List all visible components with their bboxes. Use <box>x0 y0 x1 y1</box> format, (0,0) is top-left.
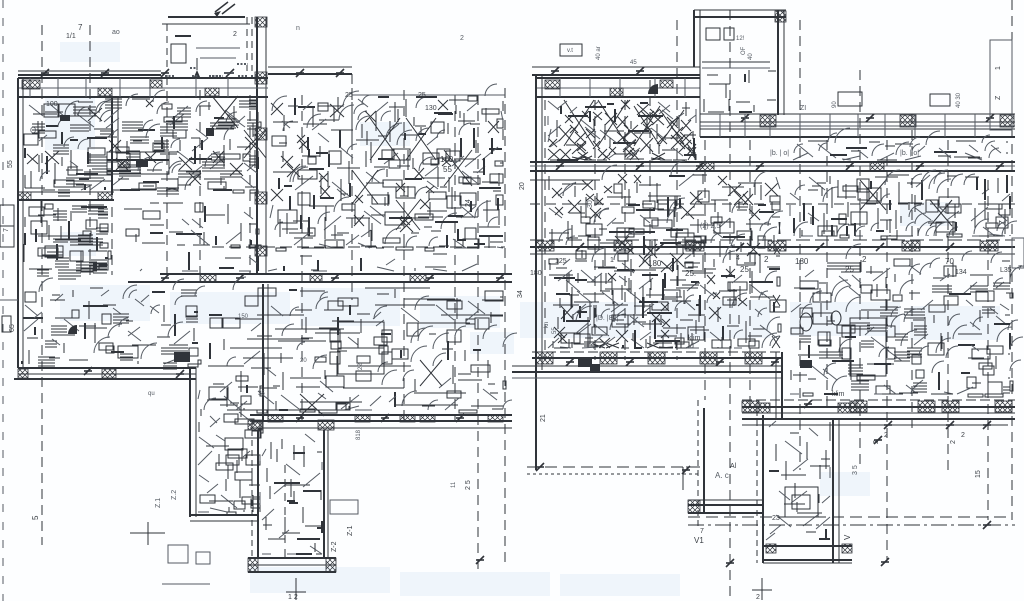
wall hatch <box>995 401 1012 412</box>
dim tick <box>161 274 169 282</box>
svg-text:2: 2 <box>950 440 957 444</box>
svg-text:V: V <box>843 534 852 540</box>
wall separator <box>227 78 229 97</box>
protrusion bottom wall <box>763 545 852 547</box>
svg-text:2: 2 <box>961 432 965 439</box>
lower-left wing bottom <box>190 514 258 516</box>
corridor details <box>140 252 493 271</box>
arrow <box>194 70 200 77</box>
wall hatch <box>488 415 503 422</box>
wall hatch <box>600 352 617 364</box>
table furniture group right plan <box>850 318 886 376</box>
svg-text:Z-2: Z-2 <box>331 541 338 552</box>
tail bottom dim stub <box>295 578 297 600</box>
dim tick <box>996 162 1004 170</box>
interior wall block <box>107 152 169 174</box>
wall hatch <box>98 192 112 200</box>
dim tick <box>381 414 389 422</box>
svg-text:11: 11 <box>451 481 457 488</box>
dim tick <box>884 421 892 429</box>
wall hatch <box>980 241 998 251</box>
brace X <box>244 130 266 158</box>
sub band <box>530 179 600 181</box>
svg-text:180: 180 <box>795 257 809 266</box>
svg-text:OF: OF <box>741 46 747 55</box>
svg-text:21: 21 <box>540 414 547 422</box>
wall hatch <box>1000 115 1014 127</box>
lower-left wing rooms <box>198 384 263 515</box>
dim tick <box>771 358 779 366</box>
dim tick <box>876 243 884 251</box>
upper right rooms <box>790 170 1017 239</box>
left rooms <box>24 201 111 279</box>
dim tick <box>946 421 954 429</box>
svg-text:2: 2 <box>460 35 464 42</box>
section dashed lines bottom right <box>688 516 1012 518</box>
upper-right rooms <box>270 84 503 251</box>
dim tick <box>236 274 244 282</box>
svg-text:34: 34 <box>517 290 524 298</box>
svg-text:Z.1: Z.1 <box>155 498 162 508</box>
dim tick <box>536 463 544 471</box>
small left part of protrusion <box>697 400 699 530</box>
wall hatch <box>700 162 714 171</box>
svg-text:ao: ao <box>112 29 120 36</box>
mid rooms <box>124 203 261 248</box>
bathroom fixtures <box>800 313 812 331</box>
svg-text:Z-1: Z-1 <box>347 525 354 536</box>
wall hatch <box>900 115 916 127</box>
wall hatch <box>757 403 770 413</box>
wall hatch <box>420 415 435 422</box>
wall hatch <box>686 241 704 251</box>
svg-text:20: 20 <box>519 182 526 190</box>
corridor wall <box>160 273 512 275</box>
brace X <box>300 394 324 416</box>
dim tick <box>741 114 749 122</box>
svg-text:Al: Al <box>730 463 737 470</box>
dim tick <box>874 436 882 444</box>
wall hatch <box>355 415 370 422</box>
grid axis <box>41 25 43 545</box>
strip rooms below top band <box>793 128 1008 160</box>
small rooms <box>548 258 700 348</box>
grid axis <box>111 95 113 275</box>
dim tick <box>626 358 634 366</box>
dim tick <box>336 69 344 77</box>
wall down to lower-left wing <box>189 368 191 517</box>
svg-text:1: 1 <box>995 66 1002 70</box>
brace X <box>352 170 378 204</box>
wall hatch <box>610 88 623 96</box>
dim tick <box>636 67 644 75</box>
brace X <box>930 200 952 226</box>
wall hatch <box>200 274 216 282</box>
svg-text:55: 55 <box>443 165 452 174</box>
wall hatch <box>842 544 852 553</box>
wall hatch <box>850 401 867 412</box>
svg-text:100: 100 <box>46 101 58 108</box>
window symbol <box>171 44 186 63</box>
grid axis <box>403 90 405 420</box>
right plan left wall <box>535 75 537 470</box>
wall hatch <box>102 369 116 378</box>
svg-text:A. c: A. c <box>715 471 729 480</box>
dim tick <box>916 162 924 170</box>
protrusion interior <box>704 70 776 112</box>
dim tick <box>946 243 954 251</box>
black door blob <box>68 325 77 334</box>
svg-text:ZI: ZI <box>800 105 806 112</box>
svg-text:134: 134 <box>955 269 967 276</box>
grid axis <box>987 180 989 520</box>
grid axis <box>89 25 91 275</box>
wall edge dashed <box>351 74 353 150</box>
wall hatch <box>255 72 267 84</box>
wall hatch <box>118 160 130 168</box>
dim tick <box>656 243 664 251</box>
dim texts <box>165 64 256 76</box>
wall hatch <box>150 80 162 88</box>
grid axis <box>624 100 626 360</box>
svg-text:7: 7 <box>700 528 704 535</box>
wall separator <box>195 78 197 97</box>
dim tick <box>576 243 584 251</box>
svg-text:qu: qu <box>148 391 155 397</box>
wall hatch <box>18 192 31 200</box>
interior wall <box>111 97 113 195</box>
wall hatch <box>18 369 28 378</box>
svg-text:90: 90 <box>832 101 838 108</box>
grid axis <box>454 95 456 420</box>
grid axis <box>826 140 828 410</box>
brace X <box>660 110 684 144</box>
bottom wall band right <box>250 414 512 416</box>
svg-text:2: 2 <box>873 440 880 444</box>
wall hatch <box>326 558 336 572</box>
wall hatch <box>745 352 762 364</box>
grid axis <box>799 20 801 470</box>
dim tick <box>176 370 184 378</box>
wall separator <box>57 78 59 97</box>
wall hatch <box>22 80 40 89</box>
wall hatch <box>775 11 786 22</box>
top protrusion <box>693 10 695 67</box>
wall separator <box>29 78 31 97</box>
dim tick <box>476 556 484 564</box>
dim tick <box>226 69 234 77</box>
lower right rooms <box>790 244 1024 397</box>
svg-text:65: 65 <box>9 324 16 332</box>
wall separator <box>85 78 87 97</box>
grid axis <box>676 20 678 360</box>
shaft box <box>785 487 818 517</box>
dim tick <box>556 162 564 170</box>
bottom wall band left <box>18 367 196 369</box>
svg-text:12!: 12! <box>736 36 745 42</box>
wall hatch <box>268 415 283 422</box>
corridor band right <box>742 399 1015 401</box>
svg-text:kn: kn <box>544 322 550 328</box>
grid axis <box>504 88 506 565</box>
svg-text:1: 1 <box>610 257 614 264</box>
black furniture blob <box>578 358 592 367</box>
svg-text:5: 5 <box>31 515 40 520</box>
dim tick <box>161 69 169 77</box>
corridor band left <box>532 351 782 353</box>
svg-text:25: 25 <box>345 92 353 99</box>
tail bottom wall <box>248 557 336 559</box>
table furniture group <box>338 322 384 374</box>
svg-text:Z: Z <box>995 95 1002 100</box>
stair block top wall <box>168 16 245 18</box>
svg-text:2: 2 <box>233 31 237 38</box>
svg-text:23: 23 <box>772 515 780 522</box>
wall hatch <box>660 80 673 88</box>
left edge section blocks <box>0 205 14 247</box>
wall hatch <box>870 162 884 171</box>
wall hatch <box>310 274 322 282</box>
brace X <box>420 360 442 386</box>
top wall band <box>18 77 268 79</box>
grid axis <box>947 140 949 470</box>
grid axis <box>649 80 651 360</box>
wall hatch <box>838 403 857 413</box>
grid axis <box>199 90 201 275</box>
grid axis <box>301 95 303 420</box>
grid axis <box>729 10 731 600</box>
svg-text:30: 30 <box>587 200 594 208</box>
scan watermark patches <box>60 285 150 321</box>
wall hatch <box>255 246 267 256</box>
svg-text:25: 25 <box>418 92 426 99</box>
svg-text:35: 35 <box>258 391 265 397</box>
small dark marks <box>60 115 70 121</box>
north wall of right rooms <box>352 94 505 96</box>
wall hatch <box>918 401 935 412</box>
svg-text:130: 130 <box>425 105 437 112</box>
band separators top band <box>719 114 721 137</box>
wall hatch <box>742 401 759 412</box>
wall hatch <box>760 115 776 127</box>
brace X <box>396 200 420 230</box>
brace X <box>634 106 660 146</box>
svg-text:40 30: 40 30 <box>956 92 962 108</box>
brace X <box>564 100 594 146</box>
dim tick <box>84 367 92 375</box>
stair area rooms <box>548 100 696 160</box>
dim tick <box>636 162 644 170</box>
svg-text:150: 150 <box>238 314 249 320</box>
section marker VI <box>215 2 235 14</box>
grid axis <box>544 100 546 360</box>
svg-text:24: 24 <box>465 199 472 207</box>
wall hatch <box>614 241 632 251</box>
dim tick <box>736 243 744 251</box>
wall separator <box>149 78 151 97</box>
top band right part <box>700 113 1015 115</box>
wall hatch <box>248 420 262 430</box>
lower tail walls <box>251 420 253 558</box>
grid axis <box>886 140 888 560</box>
grid axis <box>911 114 913 430</box>
interior wall band left <box>18 191 114 193</box>
lower-left rooms <box>22 278 205 369</box>
lower-right rooms <box>204 277 517 413</box>
svg-text:7: 7 <box>78 23 83 32</box>
dim tick <box>716 358 724 366</box>
tail axis <box>284 465 286 560</box>
dim tick <box>726 559 734 567</box>
svg-text:40 ar: 40 ar <box>596 46 602 60</box>
svg-text:2: 2 <box>764 255 769 264</box>
left rooms right plan <box>549 161 783 348</box>
window sym <box>560 44 582 56</box>
window sym <box>930 94 950 106</box>
svg-text:2 5: 2 5 <box>465 480 472 490</box>
dim tick <box>846 162 854 170</box>
long dashed line <box>686 466 700 468</box>
svg-text:3 5: 3 5 <box>852 465 859 475</box>
tail room <box>262 434 322 554</box>
wall hatch <box>700 352 717 364</box>
svg-text:20: 20 <box>300 358 307 364</box>
wall hatch <box>902 241 920 251</box>
main band <box>530 161 1015 163</box>
wing bottom detail marks <box>168 545 188 563</box>
grid axis <box>166 75 168 275</box>
dim tick <box>756 162 764 170</box>
dim tick <box>41 69 49 77</box>
dim tick <box>804 400 812 408</box>
dim tick <box>816 243 824 251</box>
wall hatch <box>410 274 426 282</box>
protrusion interior wall <box>702 61 770 63</box>
bottom protrusion walls <box>756 410 758 563</box>
corridor step wall <box>781 352 783 420</box>
grid axis <box>704 140 706 400</box>
page edge dashes <box>2 0 4 601</box>
dim tick <box>983 521 991 529</box>
dim tick <box>331 274 339 282</box>
svg-text:2: 2 <box>756 594 760 601</box>
wall hatch <box>248 558 258 572</box>
wall hatch <box>400 415 415 422</box>
brace X <box>598 100 628 146</box>
grid axis <box>859 70 861 470</box>
dim tick <box>496 274 504 282</box>
grid axis <box>1011 0 1013 520</box>
wall hatch <box>688 500 700 513</box>
wall hatch <box>205 88 219 96</box>
dim tick <box>101 69 109 77</box>
brace X <box>212 96 238 128</box>
dim tick <box>296 414 304 422</box>
grid axis <box>477 95 479 570</box>
dim tick <box>983 421 991 429</box>
top band left block <box>532 66 700 68</box>
svg-text:45: 45 <box>630 60 637 66</box>
grid axis <box>594 100 596 360</box>
brace X <box>444 150 472 186</box>
bottom dim stub <box>761 578 763 600</box>
left outer wall <box>17 78 19 368</box>
wall hatch <box>255 17 267 27</box>
svg-text:n: n <box>296 25 300 32</box>
dim tick <box>456 414 464 422</box>
wall hatch <box>766 544 776 553</box>
svg-text:(2) 2,5: (2) 2,5 <box>700 223 720 230</box>
dim tick <box>696 162 704 170</box>
brace X <box>860 180 886 210</box>
dim line <box>18 70 161 72</box>
wall hatch <box>318 420 334 430</box>
dim line right part <box>268 66 352 68</box>
dim tick <box>566 358 574 366</box>
window sym <box>838 92 862 106</box>
right edge section block <box>990 40 1012 130</box>
wall separator <box>119 78 121 97</box>
protrusion room <box>766 421 830 540</box>
svg-text:55: 55 <box>7 160 14 168</box>
dim tick <box>426 274 434 282</box>
wall hatch <box>942 401 959 412</box>
grid axis <box>351 74 353 300</box>
svg-text:V1: V1 <box>694 536 704 545</box>
svg-text:2: 2 <box>884 432 888 439</box>
svg-text:25: 25 <box>740 265 749 274</box>
wall hatch <box>768 241 786 251</box>
svg-text:Z.2: Z.2 <box>171 490 178 500</box>
svg-text:22: 22 <box>358 363 364 370</box>
dim tick <box>682 466 690 474</box>
grid axis <box>249 95 251 275</box>
svg-text:1/1: 1/1 <box>66 33 76 40</box>
svg-text:O: O <box>30 126 36 135</box>
grid axis <box>749 140 751 410</box>
dim tick <box>881 558 889 566</box>
wall hatch <box>648 352 665 364</box>
wall hatch <box>255 192 267 204</box>
wall hatch <box>98 88 112 96</box>
svg-text:Z: Z <box>998 220 1007 225</box>
svg-text:1 2: 1 2 <box>288 594 298 601</box>
upper-left rooms furniture <box>24 90 261 196</box>
svg-text:v.t: v.t <box>567 48 573 54</box>
svg-text:818: 818 <box>356 429 362 440</box>
brace X <box>406 118 436 160</box>
wall hatch <box>545 80 560 89</box>
dim line <box>18 74 161 76</box>
dim tick <box>866 114 874 122</box>
svg-text:15: 15 <box>975 470 982 478</box>
svg-text:|b. | o|: |b. | o| <box>900 150 919 157</box>
svg-text:2: 2 <box>862 255 867 264</box>
svg-text:40: 40 <box>748 53 754 60</box>
svg-text:7: 7 <box>3 228 10 232</box>
dim tick <box>986 114 994 122</box>
wall hatch <box>536 241 554 251</box>
dim tick <box>296 69 304 77</box>
lower wing left wall upper part <box>262 284 264 420</box>
brace X <box>370 118 400 160</box>
wall hatch <box>536 352 553 364</box>
wall hatch <box>255 128 267 140</box>
dashed axis line <box>530 203 1015 205</box>
dim tick <box>551 67 559 75</box>
svg-text:180: 180 <box>530 270 542 277</box>
svg-text:|b. | o|: |b. | o| <box>770 150 789 157</box>
